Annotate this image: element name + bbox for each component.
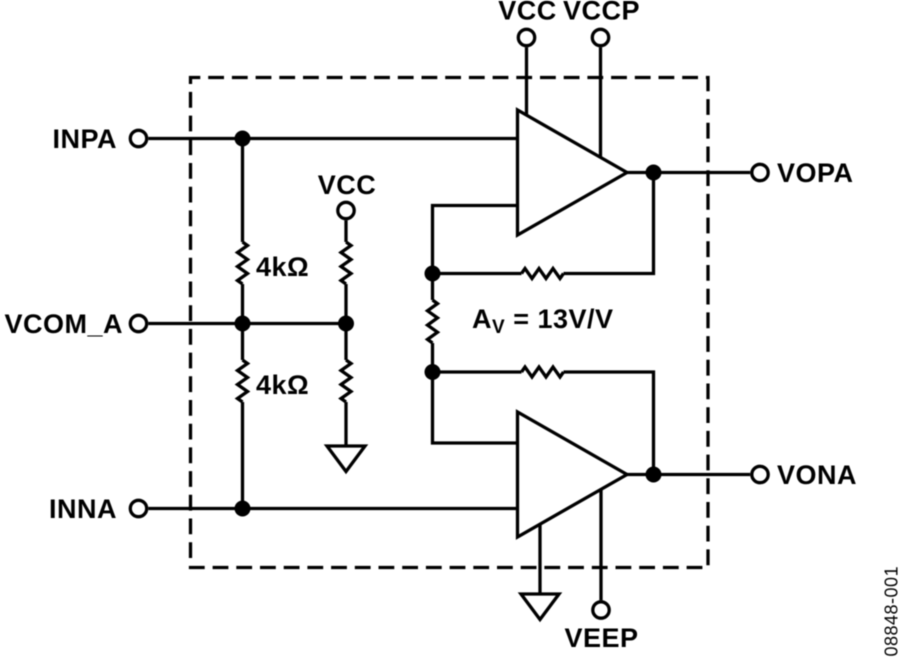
terminal VOPA: [752, 164, 768, 180]
terminal VCC (top): [518, 29, 534, 45]
device boundary (dashed box): [191, 78, 709, 568]
wire R6 left lead: [433, 272, 522, 275]
node VCOM/divider junction: [338, 316, 354, 332]
svg-text:VCC: VCC: [318, 170, 377, 200]
resistor R1 4k: [238, 242, 248, 284]
ground (U2): [521, 594, 559, 620]
wire VCOM rail to R4: [344, 324, 347, 361]
svg-text:4kΩ: 4kΩ: [256, 252, 309, 282]
wire R6 right lead: [564, 173, 654, 274]
wire R2 bottom lead: [241, 402, 244, 509]
svg-text:VOPA: VOPA: [777, 158, 854, 188]
resistor R6 feedback: [522, 269, 564, 279]
node INPA/R1 junction: [235, 131, 251, 147]
wire R3 to VCOM rail: [344, 284, 347, 324]
wire U2 to ground: [538, 520, 541, 594]
wire VCC to U1 top: [525, 47, 528, 118]
node U2 output junction: [646, 467, 662, 483]
wire INNA to U2 -input: [148, 507, 517, 510]
terminal INPA: [130, 130, 146, 146]
terminal VCC (mid): [338, 202, 354, 218]
wire R1 bottom lead: [241, 284, 244, 324]
svg-text:VCC: VCC: [498, 0, 557, 26]
wire R2 top lead: [241, 324, 244, 361]
wire U1 output: [627, 171, 750, 174]
wire R5 top lead: [431, 274, 434, 301]
node R5 bottom junction: [425, 364, 441, 380]
svg-text:08848-001: 08848-001: [882, 566, 900, 657]
node U1 output junction: [646, 165, 662, 181]
wire INPA to U1 +input: [148, 137, 517, 140]
terminal VCOM_A: [130, 315, 146, 331]
terminal VCCP: [592, 29, 608, 45]
wire R4 to ground: [344, 402, 347, 446]
resistor R7 feedback: [522, 367, 564, 377]
op-amp U2: [518, 412, 628, 537]
wire VCOM_A rail: [148, 322, 346, 325]
svg-text:VEEP: VEEP: [564, 623, 638, 653]
svg-text:4kΩ: 4kΩ: [256, 370, 309, 400]
resistor R5: [428, 300, 438, 343]
node INNA/R2 junction: [235, 501, 251, 517]
svg-text:VCCP: VCCP: [563, 0, 640, 26]
resistor R4: [341, 360, 351, 402]
terminal VONA: [752, 466, 768, 482]
wire R7 right lead: [564, 372, 654, 475]
wire VCC to R3: [344, 220, 347, 242]
node R5 top junction: [425, 266, 441, 282]
terminal VEEP: [593, 602, 609, 618]
wire U1 -input: [433, 206, 518, 274]
svg-text:INPA: INPA: [52, 124, 117, 154]
resistor R3: [341, 242, 351, 284]
terminal INNA: [130, 500, 146, 516]
node VCOM/R1 junction: [235, 316, 251, 332]
op-amp U1: [518, 110, 628, 235]
wire R5 bottom lead: [431, 343, 434, 372]
wire VCCP to U1 top: [599, 47, 602, 160]
wire R1 top lead: [241, 139, 244, 243]
svg-text:INNA: INNA: [49, 494, 117, 524]
ground (divider): [327, 446, 365, 472]
svg-text:VCOM_A: VCOM_A: [4, 309, 123, 339]
svg-text:AV = 13V/V: AV = 13V/V: [472, 304, 614, 338]
resistor R2 4k: [238, 360, 248, 402]
wire U2 +input: [433, 372, 518, 443]
wire U2 to VEEP: [599, 486, 602, 600]
wire U2 output: [627, 473, 750, 476]
svg-text:VONA: VONA: [777, 460, 857, 490]
wire R7 left lead: [433, 370, 522, 373]
